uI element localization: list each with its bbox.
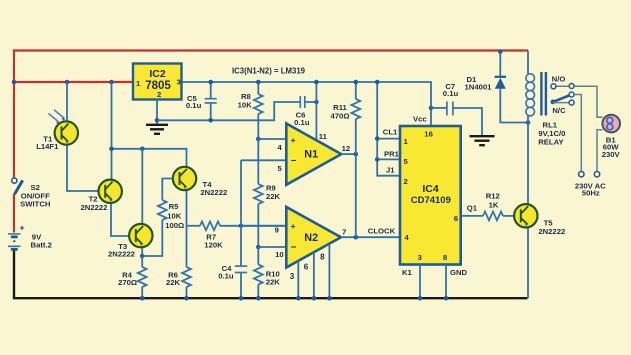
wire N2 output clock — [341, 236, 400, 238]
svg-text:2N2222: 2N2222 — [108, 250, 135, 259]
resistor R12 1K — [483, 192, 514, 221]
svg-text:CL1: CL1 — [383, 128, 398, 137]
svg-text:GND: GND — [450, 268, 468, 277]
svg-text:22K: 22K — [266, 192, 281, 201]
svg-text:120K: 120K — [204, 241, 223, 250]
wire ground rail to C6 — [157, 102, 300, 120]
op-amp N1 — [286, 124, 341, 185]
node N1 out R11 — [354, 152, 359, 157]
node IC2 ground junction — [155, 118, 160, 123]
svg-text:6: 6 — [304, 262, 309, 271]
capacitor C7 0.1u — [431, 82, 482, 136]
wire N1 pin11 — [315, 82, 317, 140]
svg-text:L14F1: L14F1 — [36, 142, 59, 151]
transistor T2 2N2222 — [81, 82, 129, 236]
relay contact N/O line — [551, 75, 603, 118]
node C4 ground — [239, 296, 244, 301]
svg-text:Batt.2: Batt.2 — [31, 241, 52, 250]
node bus-left — [12, 80, 17, 85]
phototransistor T1 L14F1 — [36, 82, 98, 191]
relay armature — [551, 92, 575, 104]
capacitor C5 0.1u — [186, 82, 217, 120]
wire N1 pin4 — [258, 138, 286, 140]
svg-text:4: 4 — [405, 233, 410, 242]
node R4 ground — [140, 296, 145, 301]
svg-text:0.1u: 0.1u — [218, 271, 234, 280]
wire IC2 pin2 — [156, 100, 158, 125]
node C5 bottom — [208, 118, 213, 123]
svg-text:R5: R5 — [169, 202, 180, 211]
svg-text:230V: 230V — [602, 150, 621, 159]
svg-text:+: + — [291, 221, 296, 231]
resistor R6 22K — [166, 226, 191, 298]
svg-text:−: − — [291, 155, 297, 166]
AC terminal right — [594, 172, 599, 177]
svg-text:270Ω: 270Ω — [118, 278, 137, 287]
svg-text:3: 3 — [418, 253, 422, 262]
node PR1 — [375, 157, 380, 162]
wire black ground bus — [14, 251, 528, 299]
svg-text:N/C: N/C — [552, 106, 566, 115]
svg-text:+: + — [20, 222, 25, 232]
svg-text:0.1u: 0.1u — [294, 118, 310, 127]
svg-text:9: 9 — [275, 225, 279, 234]
svg-text:1: 1 — [404, 137, 409, 146]
svg-text:3: 3 — [177, 78, 181, 87]
svg-text:2: 2 — [157, 90, 161, 99]
switch S2 — [12, 178, 51, 208]
wire red to IC2 pin1 — [14, 81, 133, 83]
node C6 right — [314, 100, 319, 105]
svg-text:4: 4 — [277, 143, 282, 152]
relay pole wire — [574, 95, 581, 172]
svg-text:R12: R12 — [486, 192, 500, 201]
node R8 top — [256, 80, 261, 85]
node R9 bottom pin10 — [256, 245, 261, 250]
svg-text:CD74109: CD74109 — [411, 195, 451, 206]
relay RL1 coil — [526, 51, 566, 147]
capacitor C6 0.1u — [294, 96, 316, 127]
node GND ground — [444, 296, 449, 301]
svg-text:1K: 1K — [489, 200, 499, 209]
wire collector rail — [112, 149, 187, 168]
node pin3 ground — [296, 296, 301, 301]
svg-text:8: 8 — [443, 253, 448, 262]
svg-text:470Ω: 470Ω — [331, 112, 350, 121]
resistor R4 270ohm — [118, 256, 147, 298]
node pin11 bus — [314, 80, 319, 85]
node T3 emitter junction — [140, 254, 145, 259]
svg-text:3: 3 — [290, 272, 295, 281]
svg-text:22K: 22K — [266, 277, 281, 286]
wire N2 pin6 — [313, 253, 315, 299]
node pin8 ground — [327, 296, 332, 301]
svg-text:2N2222: 2N2222 — [538, 227, 565, 236]
wire lamp to AC — [597, 130, 603, 172]
svg-text:2N2222: 2N2222 — [81, 203, 108, 212]
svg-text:K1: K1 — [402, 268, 413, 277]
node R11 top — [354, 80, 359, 85]
diode D1 1N4001 — [465, 52, 528, 123]
svg-text:IC4: IC4 — [422, 183, 439, 195]
svg-text:PR1: PR1 — [384, 150, 400, 159]
IC4 CD74109 — [400, 126, 461, 265]
node rail-T2 — [109, 147, 114, 152]
wire CL1 — [377, 138, 400, 140]
svg-text:8: 8 — [320, 252, 325, 261]
wire top bus blue — [182, 82, 432, 126]
AC terminal left — [579, 172, 584, 177]
node clock R11 — [354, 235, 359, 240]
op-amp N2 — [286, 207, 341, 268]
ground right — [470, 136, 495, 145]
resistor R10 22K — [254, 247, 280, 298]
ground under IC2 — [146, 125, 168, 134]
wire N2 pin9 — [241, 225, 286, 227]
svg-text:100Ω: 100Ω — [165, 221, 184, 230]
svg-text:1: 1 — [136, 79, 141, 88]
svg-text:10K: 10K — [167, 212, 182, 221]
node R6 ground — [184, 296, 189, 301]
capacitor C4 0.1u — [218, 264, 247, 298]
transistor T5 2N2222 — [514, 123, 565, 299]
node R8 bottom pin4 — [256, 137, 261, 142]
wire red top bus — [14, 51, 528, 233]
node K1 ground — [418, 296, 423, 301]
node rail-T3 — [140, 147, 145, 152]
wire N2 pin10 — [258, 246, 286, 248]
svg-text:Vcc: Vcc — [413, 115, 427, 124]
svg-text:2N2222: 2N2222 — [200, 188, 227, 197]
svg-text:SWITCH: SWITCH — [20, 199, 51, 208]
wire C4 branch vertical — [240, 160, 242, 266]
svg-text:7: 7 — [342, 228, 346, 237]
svg-text:RELAY: RELAY — [538, 138, 563, 147]
node T1 collector tap — [65, 80, 70, 85]
node R10 ground — [256, 296, 261, 301]
wire N1 pin5 — [241, 159, 286, 161]
resistor R11 470ohm — [331, 82, 361, 237]
resistor R7 120K — [187, 221, 287, 249]
svg-text:CLOCK: CLOCK — [368, 227, 396, 236]
svg-text:IC3(N1-N2) = LM319: IC3(N1-N2) = LM319 — [232, 67, 306, 76]
resistor R8 10K — [238, 82, 263, 139]
svg-text:0.1u: 0.1u — [186, 101, 202, 110]
wire T4 base — [162, 179, 173, 201]
svg-text:1N4001: 1N4001 — [465, 83, 493, 92]
svg-text:16: 16 — [424, 130, 433, 139]
svg-text:11: 11 — [319, 132, 328, 141]
battery B9V Batt.2 — [8, 222, 52, 249]
resistor R5 — [158, 200, 184, 230]
svg-text:0.1u: 0.1u — [443, 89, 459, 98]
wire CL1 PR1 J1 chain — [377, 82, 400, 176]
wire N2 pin3 — [297, 261, 299, 298]
wire K1 — [419, 265, 421, 299]
node C5 top — [208, 80, 213, 85]
node R7-C4 junction — [239, 224, 244, 229]
lamp B1 — [602, 115, 621, 159]
svg-text:5: 5 — [277, 164, 282, 173]
svg-text:12: 12 — [342, 144, 351, 153]
svg-text:6: 6 — [454, 214, 458, 223]
IC2 7805 — [133, 64, 182, 100]
node T2 collector tap — [109, 80, 114, 85]
node CL1 — [375, 136, 380, 141]
wire Q1 output — [461, 215, 483, 217]
node C7 tap — [429, 106, 434, 111]
svg-text:+: + — [291, 135, 296, 145]
relay contact N/C line — [552, 100, 574, 115]
svg-text:10K: 10K — [238, 101, 253, 110]
node D1 bottom — [526, 120, 531, 125]
node chain bus — [375, 80, 380, 85]
wire N1 output pin12 — [341, 153, 356, 155]
svg-text:R8: R8 — [241, 92, 252, 101]
wire PR1 — [377, 158, 400, 160]
transistor T3 2N2222 — [108, 149, 152, 259]
svg-text:2: 2 — [404, 177, 408, 186]
node D1 top — [498, 49, 503, 54]
svg-text:N2: N2 — [304, 232, 318, 244]
wire GND pin8 — [445, 265, 447, 299]
wire N2 pin8 — [328, 244, 330, 298]
svg-text:N/O: N/O — [552, 75, 566, 84]
wire T3 emitter to R5 — [142, 220, 162, 256]
resistor R9 22K — [254, 139, 281, 247]
svg-text:−: − — [291, 242, 297, 253]
svg-text:J1: J1 — [386, 166, 395, 175]
node pin6 ground — [312, 296, 317, 301]
transistor T4 2N2222 — [173, 167, 227, 226]
svg-text:IC2: IC2 — [149, 68, 166, 80]
svg-text:5: 5 — [404, 157, 409, 166]
svg-text:22K: 22K — [166, 278, 181, 287]
svg-text:Q1: Q1 — [467, 204, 478, 213]
svg-text:10: 10 — [275, 250, 284, 259]
svg-text:50Hz: 50Hz — [582, 189, 600, 198]
svg-text:N1: N1 — [304, 149, 318, 161]
